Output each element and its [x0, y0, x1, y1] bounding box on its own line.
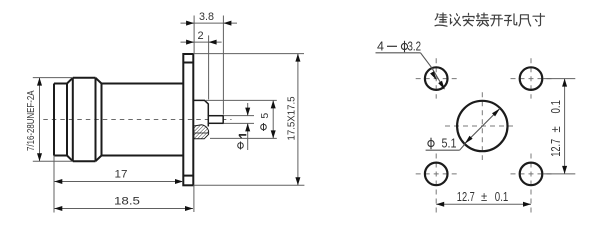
body/flange extension lines down	[53, 156, 55, 213]
17.5X17.5 extension lines	[193, 53, 304, 55]
17.5X17.5 dim line	[297, 54, 299, 186]
phi5 label (rotated)	[261, 123, 267, 131]
孔	[505, 14, 517, 26]
2 dim line	[181, 41, 222, 43]
big circle crosshair	[445, 125, 515, 127]
phi1 extension lines	[223, 115, 254, 117]
title 建议安装开孔尺寸 drawn as strokes	[435, 13, 545, 26]
thread dim arrows	[37, 78, 42, 86]
barrel 2	[102, 84, 184, 156]
thread dim line	[39, 78, 41, 162]
2 arrows (outside)	[186, 40, 194, 45]
phi5.1 diameter arrow in center circle	[465, 109, 500, 144]
svg-text:18.5: 18.5	[114, 196, 140, 208]
hole crosshairs (dashed)	[416, 58, 552, 212]
安	[463, 13, 474, 25]
议	[450, 14, 461, 26]
phi1 label (rotated)	[238, 142, 244, 150]
3.8 dim line	[181, 22, 238, 24]
svg-text:3.8: 3.8	[199, 11, 214, 23]
svg-text:4: 4	[377, 40, 384, 54]
phi5 extension lines	[206, 99, 277, 101]
svg-text:5: 5	[259, 113, 271, 119]
phi5 dim line	[272, 100, 274, 138]
18.5 arrows	[54, 206, 62, 211]
18.5 dim line	[54, 208, 193, 210]
center hole	[457, 101, 507, 151]
装	[477, 13, 489, 26]
svg-text:17: 17	[115, 169, 128, 181]
insulator hatching (section)	[194, 125, 209, 139]
svg-text:5.1: 5.1	[442, 137, 457, 151]
3.8 arrows (outside)	[186, 21, 194, 26]
center pin	[208, 116, 223, 124]
svg-text:12.7: 12.7	[457, 189, 475, 204]
leader	[376, 53, 445, 89]
thread dim extension lines	[33, 77, 72, 79]
svg-text:7/16-28UNEF-2A: 7/16-28UNEF-2A	[25, 91, 37, 152]
svg-text:12.7: 12.7	[548, 139, 563, 157]
svg-text:17.5X17.5: 17.5X17.5	[286, 96, 298, 140]
svg-text:±: ±	[548, 126, 563, 132]
17 dim line	[54, 181, 183, 183]
thread barrel	[54, 84, 67, 156]
尺	[519, 15, 531, 26]
phi1 dim line	[247, 103, 249, 116]
hex nut	[73, 78, 96, 161]
chamfer left	[67, 78, 73, 161]
开	[491, 15, 503, 26]
4 mounting holes	[425, 67, 542, 185]
12.7 +/- 0.1 right dimension	[544, 79, 576, 174]
3.8 extension lines	[193, 16, 195, 55]
寸	[533, 14, 545, 26]
phi5 arrows	[271, 100, 276, 108]
chamfer right	[96, 78, 102, 161]
建	[435, 13, 447, 26]
phi5.1 label	[428, 138, 434, 150]
arrowheads left view	[37, 21, 300, 211]
connector body outline	[54, 54, 193, 185]
svg-text:3.2: 3.2	[408, 40, 422, 54]
svg-text:2: 2	[198, 30, 204, 42]
svg-text:0.1: 0.1	[495, 189, 509, 204]
centerline	[43, 119, 231, 121]
svg-text:±: ±	[481, 189, 487, 204]
17.5 arrows	[295, 54, 300, 62]
svg-text:0.1: 0.1	[548, 100, 563, 114]
12.7 +/- 0.1 bottom dimension	[436, 203, 531, 205]
17 arrows	[54, 179, 62, 184]
dimension texts left view	[25, 11, 298, 208]
flange	[183, 54, 193, 185]
insulator boss	[193, 100, 208, 126]
phi1 arrows (outside)	[245, 108, 250, 116]
